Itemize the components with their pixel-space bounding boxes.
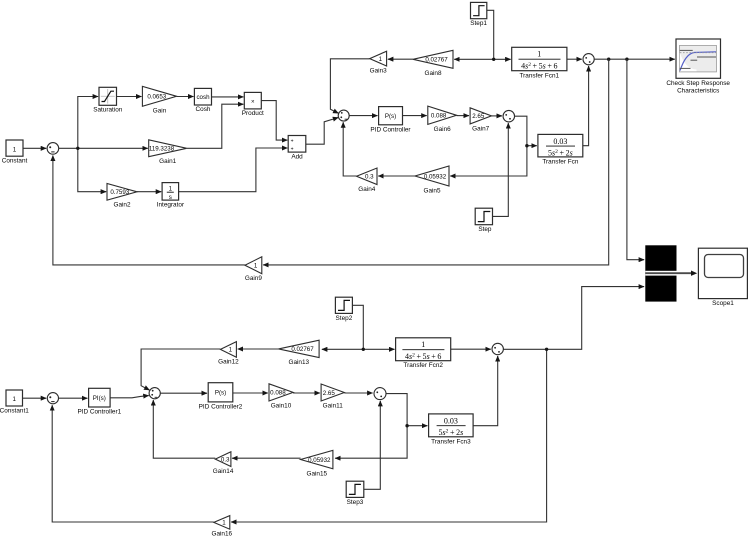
junction node A on SumC output <box>607 58 610 61</box>
wire Gain4 to SumA bottom <box>343 122 356 176</box>
wire junction down to Gain15 <box>335 426 407 459</box>
wire branch down to Gain5 <box>450 146 527 176</box>
wire Gain11 to Sum3 <box>344 392 372 394</box>
wire Transfer Fcn1 to SumC <box>567 58 582 60</box>
wire Gain6 to Gain7 <box>457 115 469 117</box>
wire Gain13 to Gain12 <box>238 348 279 350</box>
svg-text:Gain: Gain <box>153 108 167 115</box>
wire Step2 down to junction <box>352 305 363 349</box>
svg-text:Gain13: Gain13 <box>288 359 309 366</box>
svg-text:Saturation: Saturation <box>93 107 123 114</box>
junction node Step2 line <box>362 348 365 351</box>
svg-text:Step3: Step3 <box>347 499 364 506</box>
wire SumD to Mux in2 <box>503 287 644 350</box>
wire junction to Gain13 <box>322 348 363 350</box>
block Integrator <box>162 183 179 201</box>
gain Gain3 <box>370 51 387 66</box>
svg-text:Gain5: Gain5 <box>423 188 440 195</box>
wire SumA to PID Controller <box>349 115 377 117</box>
wire Constant1 to Sum4 <box>23 397 47 399</box>
svg-text:P(s): P(s) <box>215 390 226 397</box>
svg-text:1: 1 <box>254 263 258 270</box>
svg-text:5s2 + 2s: 5s2 + 2s <box>548 148 573 157</box>
wire B down to Mux in1 <box>627 59 644 260</box>
wire SumC to Check block <box>594 58 675 60</box>
gain Gain4 <box>357 168 378 185</box>
svg-text:1: 1 <box>229 347 233 354</box>
wire PID Controller2 to Gain10 <box>233 392 268 394</box>
svg-text:Gain15: Gain15 <box>306 470 327 477</box>
svg-text:Gain16: Gain16 <box>211 531 232 538</box>
wire Integrator to Add in2 <box>179 148 288 192</box>
wire PID Controller to Gain6 <box>403 115 427 117</box>
svg-text:1: 1 <box>13 146 17 153</box>
sum Sum4 <box>47 393 58 404</box>
svg-text:0.0653: 0.0653 <box>147 94 166 101</box>
wire feedback down to Gain16 <box>231 349 547 522</box>
block PID Controller1 <box>89 388 111 407</box>
wire Step3 to Sum3 bottom <box>364 401 381 489</box>
gain Gain14 <box>215 452 231 467</box>
svg-text:Gain11: Gain11 <box>323 403 344 410</box>
svg-text:4s2 + 5s + 6: 4s2 + 5s + 6 <box>521 62 557 71</box>
sum SumC <box>583 54 594 65</box>
wire Step up to SumB bottom <box>493 123 509 216</box>
svg-text:PID Controller2: PID Controller2 <box>199 403 243 410</box>
wire Step1 down to junction <box>487 10 494 59</box>
gain Gain12 <box>220 342 236 358</box>
sum Sum5 <box>149 388 160 399</box>
svg-text:Integrator: Integrator <box>157 202 185 209</box>
svg-text:×: × <box>251 99 255 106</box>
block PID Controller2 <box>208 383 233 402</box>
svg-text:Transfer Fcn2: Transfer Fcn2 <box>403 362 443 369</box>
gain Gain7 <box>470 108 491 124</box>
wire Cosh to Product in1 <box>212 96 244 98</box>
svg-text:Cosh: Cosh <box>196 106 211 113</box>
svg-text:+: + <box>291 139 294 145</box>
block Constant1 <box>6 390 23 406</box>
block Scope1 <box>698 248 747 298</box>
svg-text:5s2 + 2s: 5s2 + 2s <box>439 428 464 437</box>
block Saturation <box>99 87 117 105</box>
svg-text:2.65: 2.65 <box>323 390 336 397</box>
wire SumB to Transfer Fcn with branch <box>515 116 537 146</box>
svg-text:Gain4: Gain4 <box>358 186 375 193</box>
svg-text:4s2 + 5s + 6: 4s2 + 5s + 6 <box>405 352 441 361</box>
gain Gain11 <box>321 384 344 401</box>
svg-text:Constant1: Constant1 <box>0 408 29 415</box>
wire Constant to Sum1 <box>23 147 46 149</box>
svg-text:Gain7: Gain7 <box>472 125 489 132</box>
svg-text:1: 1 <box>537 50 541 59</box>
wire Gain8 to Gain3 <box>388 58 413 60</box>
block Transfer Fcn2 <box>396 338 451 361</box>
gain Gain2 <box>107 184 137 201</box>
gain Gain8 <box>413 50 453 68</box>
svg-text:PI(s): PI(s) <box>93 395 106 402</box>
svg-text:+: + <box>291 147 294 153</box>
svg-text:0.3: 0.3 <box>365 174 374 181</box>
svg-text:0.03: 0.03 <box>444 416 458 425</box>
svg-text:Constant: Constant <box>2 158 28 165</box>
block Step3 <box>346 481 364 497</box>
svg-text:Product: Product <box>242 110 264 117</box>
wire branch up to Saturation <box>78 97 98 149</box>
junction node before Transfer Fcn <box>525 144 528 147</box>
svg-text:119.3238: 119.3238 <box>149 146 175 153</box>
block Add <box>288 136 306 153</box>
wire Transfer Fcn2 to SumD <box>451 348 491 350</box>
svg-text:Check Step Response: Check Step Response <box>666 80 730 87</box>
svg-text:PID Controller1: PID Controller1 <box>77 409 121 416</box>
svg-text:Add: Add <box>291 154 303 161</box>
sum SumB <box>503 110 515 122</box>
wire Gain to Cosh <box>177 96 194 98</box>
gain Gain6 <box>428 106 457 124</box>
block Check Step Response Characteristics <box>676 39 721 78</box>
block Constant <box>6 140 23 156</box>
svg-text:1: 1 <box>379 56 383 63</box>
block Step1 <box>471 2 487 18</box>
svg-text:Characteristics: Characteristics <box>677 87 719 94</box>
block Transfer Fcn1 <box>512 47 567 70</box>
gain Gain <box>142 86 176 106</box>
junction node Step1 line <box>492 58 495 61</box>
svg-text:Gain14: Gain14 <box>213 468 234 475</box>
junction node after Sum1 <box>76 147 79 150</box>
gain Gain1 <box>149 140 187 157</box>
wire Gain3 loop to SumA <box>330 59 369 114</box>
wire junction to Transfer Fcn1 <box>494 58 511 60</box>
wire Transfer Fcn up to SumC bottom <box>583 66 589 146</box>
svg-text:PID Controller: PID Controller <box>370 126 411 133</box>
block Transfer Fcn3 <box>429 414 474 437</box>
svg-text:cosh: cosh <box>196 94 210 101</box>
wire Sum5 to PID Controller2 <box>160 392 207 394</box>
wire Gain7 to SumB <box>491 115 502 117</box>
svg-text:0.3: 0.3 <box>221 456 230 463</box>
block Step2 <box>335 297 352 313</box>
wire junction to Gain8 <box>454 58 494 60</box>
wire Gain10 to Gain11 <box>293 392 320 394</box>
svg-text:1: 1 <box>421 340 425 349</box>
block Cosh <box>194 88 211 105</box>
svg-text:Step1: Step1 <box>470 20 487 27</box>
wire Gain12 loop to Sum5 <box>141 349 220 390</box>
svg-text:Gain8: Gain8 <box>424 70 441 77</box>
svg-text:Gain3: Gain3 <box>370 68 387 75</box>
wire Sum3 to Transfer Fcn3 with corner <box>386 394 427 426</box>
svg-text:0.088: 0.088 <box>431 113 447 120</box>
block Step <box>475 208 492 225</box>
wire Gain9 to Sum1 bottom <box>53 156 245 265</box>
wire Gain16 to Sum4 bottom <box>52 405 214 522</box>
gain Gain5 <box>415 166 449 186</box>
wire Mux to Scope1 <box>645 272 691 274</box>
svg-text:Gain6: Gain6 <box>434 126 451 133</box>
svg-text:0.7593: 0.7593 <box>110 189 129 196</box>
wire PID Controller1 to Sum5 <box>110 396 149 398</box>
block PID Controller <box>379 107 403 125</box>
wire Transfer Fcn3 to SumD bottom <box>473 356 498 426</box>
svg-text:0.03: 0.03 <box>553 137 567 146</box>
junction node before Transfer Fcn3 <box>405 424 408 427</box>
svg-text:Step2: Step2 <box>336 315 353 322</box>
svg-text:s: s <box>169 194 172 201</box>
wire Sum1 to Gain1 <box>59 147 148 149</box>
svg-text:Gain2: Gain2 <box>113 202 130 209</box>
wire feedback A down to Gain9 <box>263 59 609 265</box>
svg-text:Transfer Fcn3: Transfer Fcn3 <box>431 438 471 445</box>
gain Gain15 <box>301 450 333 469</box>
sum SumD <box>492 343 503 354</box>
wire Add to SumA <box>306 118 339 145</box>
svg-text:Gain9: Gain9 <box>245 275 262 282</box>
gain Gain10 <box>269 384 293 401</box>
block Product <box>244 92 261 109</box>
sum SumA <box>338 110 349 121</box>
gain Gain13 <box>279 340 320 357</box>
svg-text:Gain10: Gain10 <box>271 403 292 410</box>
block Transfer Fcn <box>538 134 583 157</box>
mux Mux (black) <box>645 245 676 301</box>
wire Saturation to Gain <box>117 96 142 98</box>
svg-text:0.02767: 0.02767 <box>425 57 448 64</box>
gain Gain9 <box>245 257 262 274</box>
wire junction to Transfer Fcn2 <box>363 348 394 350</box>
svg-text:1: 1 <box>169 186 173 193</box>
wire Gain14 to Sum5 bottom <box>153 400 215 458</box>
svg-text:Transfer Fcn1: Transfer Fcn1 <box>520 72 560 79</box>
sum Sum3 <box>374 388 386 400</box>
svg-text:Step: Step <box>478 226 492 233</box>
svg-text:Scope1: Scope1 <box>712 300 734 307</box>
svg-text:Gain12: Gain12 <box>218 359 239 366</box>
sum Sum1 <box>47 143 59 155</box>
junction node B on SumC output <box>625 58 628 61</box>
svg-text:0.05932: 0.05932 <box>308 457 331 464</box>
wire Sum4 to PID Controller1 <box>59 397 88 399</box>
wire Gain5 to Gain4 <box>378 175 415 177</box>
svg-text:0.088: 0.088 <box>270 390 286 397</box>
svg-text:P(s): P(s) <box>385 113 396 120</box>
svg-text:Gain1: Gain1 <box>159 158 176 165</box>
wire Gain1 to Product in2 <box>187 104 244 148</box>
wire Gain2 to Integrator <box>137 191 161 193</box>
svg-text:1: 1 <box>12 396 16 403</box>
wire Gain15 to Gain14 <box>232 457 301 459</box>
junction node on SumD output <box>545 348 548 351</box>
svg-text:0.02767: 0.02767 <box>291 346 314 353</box>
svg-text:0.05932: 0.05932 <box>424 173 447 180</box>
svg-text:Transfer Fcn: Transfer Fcn <box>542 158 578 165</box>
wire branch down to Gain2 <box>78 148 106 191</box>
svg-text:1: 1 <box>222 520 226 527</box>
gain Gain16 <box>214 516 230 530</box>
wire Product to Add in1 <box>261 101 287 141</box>
svg-text:2.65: 2.65 <box>472 113 485 120</box>
